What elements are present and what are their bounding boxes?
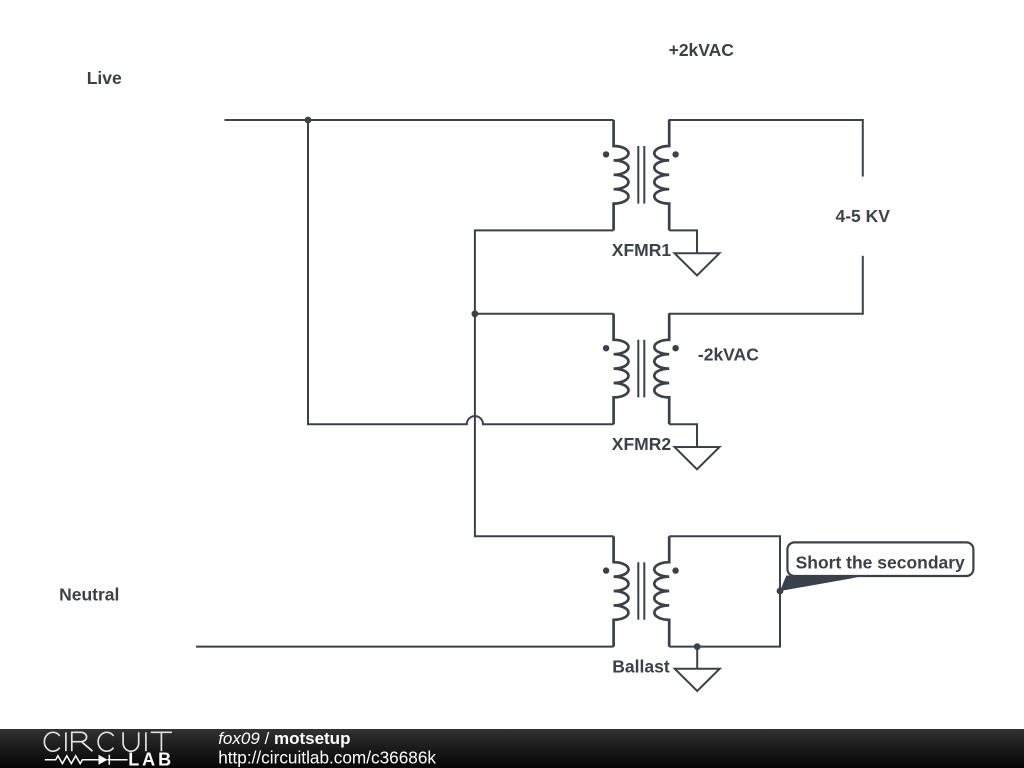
svg-text:fox09 / motsetup: fox09 / motsetup [218,729,350,748]
ground for XFMR1 secondary [669,230,719,275]
wire XFMR1 secondary top to right rail stub [669,120,863,176]
svg-text:+2kVAC: +2kVAC [669,40,735,60]
svg-text:Ballast: Ballast [612,656,670,676]
junction dot on Ballast secondary bottom [694,643,701,650]
svg-text:-2kVAC: -2kVAC [698,344,759,364]
wire Live rail [225,119,614,121]
transformer XFMR1 [603,120,679,230]
svg-text:LAB: LAB [128,749,174,768]
transformer Ballast [603,536,679,646]
svg-text:Short the secondary: Short the secondary [796,552,965,572]
CircuitLab logo resistor-diode glyph [45,756,99,764]
ground for XFMR2 secondary [669,424,719,469]
annotation pointer wedge [780,576,858,592]
annotation bubble Short the secondary [787,542,973,576]
footer bar [0,729,1024,768]
wire Ballast secondary shorting loop [669,536,780,646]
svg-text:http://circuitlab.com/c36686k: http://circuitlab.com/c36686k [218,748,436,768]
junction dot node A [472,310,479,317]
junction dot on Live rail [305,117,312,124]
ground for Ballast secondary [675,647,720,691]
wire Neutral rail [196,646,614,648]
svg-text:4-5 KV: 4-5 KV [836,206,891,226]
CircuitLab logo wordmark CIRCUIT [44,732,172,751]
transformer XFMR2 [603,314,679,424]
wire XFMR1 primary bottom to junction A [475,230,614,536]
svg-text:Neutral: Neutral [59,585,119,605]
wire junction A to XFMR2 primary top [475,313,614,315]
wire from Live junction down to XFMR2 primary bottom (with hop) [308,120,614,424]
wire XFMR2 secondary top to right rail stub [669,257,863,314]
svg-text:XFMR1: XFMR1 [612,240,672,260]
svg-text:Live: Live [87,68,122,88]
junction dot annotation anchor [777,588,784,595]
svg-text:XFMR2: XFMR2 [612,434,672,454]
